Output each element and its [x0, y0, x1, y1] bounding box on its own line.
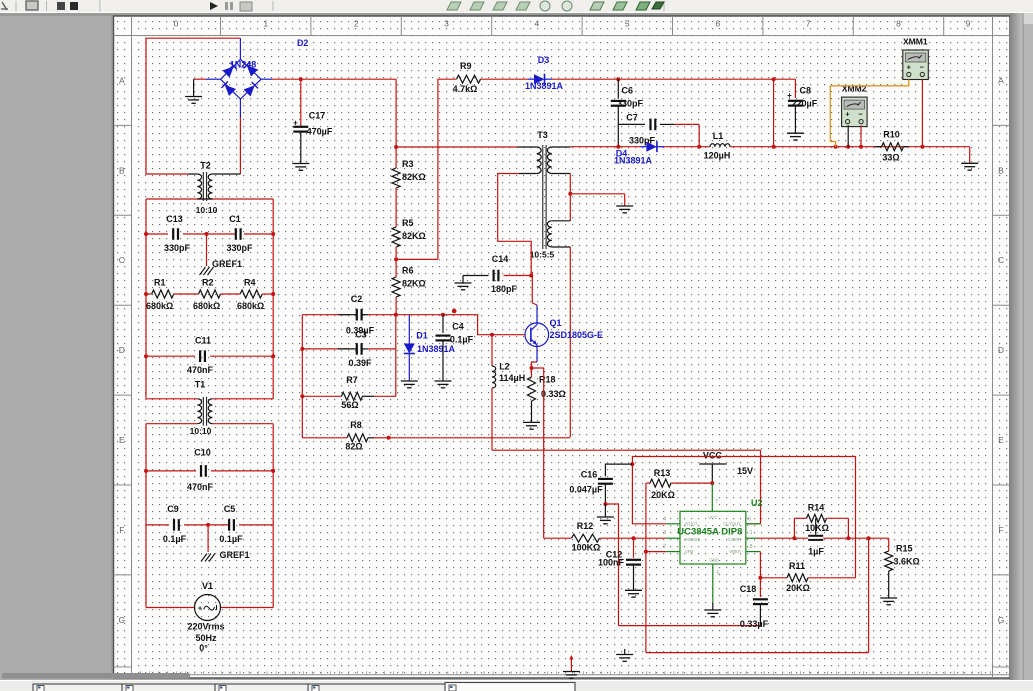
svg-text:VFB: VFB	[685, 549, 693, 554]
svg-text:F: F	[119, 525, 124, 535]
svg-text:1N3891A: 1N3891A	[417, 344, 456, 354]
svg-text:R2: R2	[202, 278, 214, 288]
svg-text:0.39F: 0.39F	[348, 358, 372, 368]
svg-text:C18: C18	[740, 584, 757, 594]
svg-text:220Vrms: 220Vrms	[187, 622, 224, 632]
svg-text:10:10: 10:10	[190, 426, 212, 436]
svg-text:470nF: 470nF	[187, 482, 214, 492]
svg-text:9: 9	[966, 19, 971, 29]
svg-text:RT/GT: RT/GT	[685, 522, 698, 527]
svg-text:R3: R3	[402, 159, 414, 169]
svg-text:1: 1	[750, 530, 753, 536]
svg-text:0.1µF: 0.1µF	[163, 534, 187, 544]
svg-text:F: F	[998, 525, 1003, 535]
svg-text:+: +	[907, 63, 912, 72]
svg-text:8: 8	[896, 19, 901, 29]
svg-text:6: 6	[715, 19, 720, 29]
svg-text:4.7kΩ: 4.7kΩ	[453, 84, 478, 94]
svg-text:XMM1: XMM1	[903, 37, 928, 47]
svg-text:180pF: 180pF	[491, 284, 518, 294]
svg-text:470µF: 470µF	[307, 126, 333, 136]
svg-text:470nF: 470nF	[187, 365, 214, 375]
svg-text:C17: C17	[309, 110, 326, 120]
svg-text:A: A	[998, 75, 1004, 85]
svg-text:A: A	[119, 75, 125, 85]
svg-text:33Ω: 33Ω	[882, 153, 899, 163]
svg-text:−: −	[920, 63, 925, 72]
svg-text:VCC: VCC	[708, 515, 717, 520]
svg-text:GND: GND	[709, 558, 718, 563]
svg-text:56Ω: 56Ω	[341, 400, 358, 410]
svg-text:0.33µF: 0.33µF	[740, 619, 769, 629]
svg-text:0.1µF: 0.1µF	[219, 534, 243, 544]
svg-text:7: 7	[715, 499, 718, 505]
svg-text:G: G	[118, 615, 125, 625]
svg-text:3: 3	[444, 19, 449, 29]
svg-text:R14: R14	[808, 503, 825, 513]
svg-text:0: 0	[174, 19, 179, 29]
svg-text:R11: R11	[789, 561, 805, 571]
svg-text:2SD1805G-E: 2SD1805G-E	[550, 330, 604, 340]
svg-text:D: D	[998, 345, 1004, 355]
svg-text:1N3891A: 1N3891A	[525, 81, 564, 91]
svg-text:6: 6	[748, 517, 751, 523]
svg-text:T1: T1	[195, 380, 206, 390]
svg-text:VCC: VCC	[703, 451, 723, 461]
svg-text:R7: R7	[346, 375, 358, 385]
svg-text:R13: R13	[654, 468, 671, 478]
svg-text:1N248: 1N248	[230, 60, 257, 70]
svg-text:1N3891A: 1N3891A	[614, 156, 653, 166]
svg-text:C3: C3	[355, 330, 367, 340]
svg-text:5: 5	[717, 571, 720, 577]
svg-text:C7: C7	[626, 113, 638, 123]
svg-text:R18: R18	[539, 375, 556, 385]
svg-text:E: E	[119, 435, 125, 445]
svg-text:UC3845A DIP8: UC3845A DIP8	[677, 527, 742, 538]
svg-text:OUTPUT: OUTPUT	[723, 522, 741, 527]
svg-text:D2: D2	[297, 38, 309, 48]
svg-text:C2: C2	[351, 294, 363, 304]
svg-text:ISENSE: ISENSE	[685, 537, 701, 542]
svg-text:Q1: Q1	[550, 318, 562, 328]
svg-text:7: 7	[806, 19, 811, 29]
svg-text:−: −	[858, 110, 863, 119]
svg-text:20KΩ: 20KΩ	[786, 583, 810, 593]
svg-text:R15: R15	[896, 544, 913, 554]
svg-text:C4: C4	[452, 321, 464, 331]
svg-text:0.33Ω: 0.33Ω	[541, 389, 566, 399]
svg-text:L1: L1	[713, 131, 724, 141]
svg-text:L2: L2	[499, 362, 510, 372]
svg-text:C6: C6	[622, 85, 634, 95]
svg-text:R5: R5	[402, 218, 414, 228]
svg-text:1: 1	[263, 19, 268, 29]
svg-text:C9: C9	[167, 504, 179, 514]
svg-text:2: 2	[663, 544, 666, 550]
svg-text:100KΩ: 100KΩ	[572, 543, 601, 553]
svg-text:COMP: COMP	[728, 537, 741, 542]
svg-text:V1: V1	[202, 581, 213, 591]
svg-text:T2: T2	[200, 161, 211, 171]
svg-text:C11: C11	[195, 336, 211, 346]
svg-text:3: 3	[663, 530, 666, 536]
svg-text:B: B	[998, 165, 1004, 175]
svg-text:C5: C5	[224, 504, 236, 514]
svg-text:B: B	[119, 165, 125, 175]
svg-text:+: +	[845, 110, 850, 119]
svg-text:R1: R1	[154, 278, 166, 288]
svg-text:5: 5	[625, 19, 630, 29]
svg-text:C14: C14	[492, 254, 509, 264]
svg-text:4: 4	[663, 517, 666, 523]
svg-text:4: 4	[535, 19, 540, 29]
svg-text:VREF: VREF	[729, 549, 741, 554]
svg-text:10:10: 10:10	[196, 205, 218, 215]
svg-text:R8: R8	[350, 420, 362, 430]
svg-text:E: E	[998, 435, 1004, 445]
svg-text:15V: 15V	[737, 466, 753, 476]
svg-text:330pF: 330pF	[226, 243, 253, 253]
svg-text:680kΩ: 680kΩ	[237, 301, 264, 311]
svg-text:C8: C8	[800, 85, 812, 95]
svg-text:C10: C10	[194, 448, 211, 458]
svg-text:C: C	[119, 255, 125, 265]
svg-text:C: C	[998, 255, 1004, 265]
svg-text:GREF1: GREF1	[220, 550, 250, 560]
svg-text:10KΩ: 10KΩ	[805, 523, 829, 533]
svg-text:D3: D3	[538, 55, 550, 65]
svg-text:82KΩ: 82KΩ	[402, 231, 426, 241]
svg-text:T3: T3	[537, 130, 548, 140]
svg-text:U2: U2	[751, 498, 763, 508]
svg-text:0°: 0°	[199, 643, 208, 653]
svg-text:1µF: 1µF	[808, 547, 824, 557]
svg-text:G: G	[998, 615, 1005, 625]
svg-text:680kΩ: 680kΩ	[193, 301, 220, 311]
svg-text:120µH: 120µH	[704, 151, 731, 161]
svg-text:8: 8	[750, 544, 753, 550]
svg-text:82Ω: 82Ω	[345, 442, 362, 452]
svg-text:C1: C1	[229, 214, 241, 224]
svg-text:C16: C16	[581, 470, 598, 480]
svg-text:82KΩ: 82KΩ	[402, 279, 426, 289]
svg-text:114µH: 114µH	[499, 373, 525, 383]
svg-text:3.6KΩ: 3.6KΩ	[894, 556, 920, 566]
svg-text:GREF1: GREF1	[212, 259, 242, 269]
svg-text:20KΩ: 20KΩ	[651, 490, 675, 500]
svg-text:D: D	[119, 345, 125, 355]
svg-text:R9: R9	[460, 61, 472, 71]
svg-text:0.1µF: 0.1µF	[450, 335, 474, 345]
svg-text:C13: C13	[166, 214, 183, 224]
svg-text:10:5:5: 10:5:5	[530, 250, 555, 260]
svg-text:330pF: 330pF	[617, 99, 644, 109]
svg-text:100nF: 100nF	[598, 558, 625, 568]
svg-text:680kΩ: 680kΩ	[146, 301, 173, 311]
svg-text:50Hz: 50Hz	[195, 633, 217, 643]
svg-text:R4: R4	[244, 278, 256, 288]
svg-text:R12: R12	[577, 521, 594, 531]
svg-text:D1: D1	[416, 330, 428, 340]
svg-text:XMM2: XMM2	[842, 84, 867, 94]
svg-text:82KΩ: 82KΩ	[402, 172, 426, 182]
svg-text:0.047µF: 0.047µF	[569, 485, 603, 495]
svg-text:220µF: 220µF	[792, 99, 818, 109]
svg-text:330pF: 330pF	[164, 243, 191, 253]
svg-text:+: +	[198, 606, 202, 613]
svg-text:+: +	[293, 119, 298, 128]
svg-text:R6: R6	[402, 266, 414, 276]
svg-text:2: 2	[354, 19, 359, 29]
svg-text:R10: R10	[883, 130, 900, 140]
